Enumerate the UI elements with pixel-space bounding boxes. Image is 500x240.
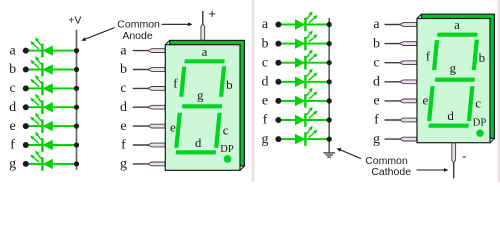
- svg-text:d: d: [9, 100, 16, 115]
- svg-text:e: e: [262, 94, 268, 109]
- pin b of display U2: [385, 42, 417, 46]
- segment a (U2): [437, 33, 477, 37]
- junction dot c on cathode rail: [327, 60, 332, 65]
- LED b (common anode): [30, 56, 53, 76]
- LED a (common cathode): [295, 11, 318, 31]
- svg-text:d: d: [262, 75, 269, 90]
- junction dot g on cathode rail: [327, 137, 332, 142]
- pin g of display U2: [385, 137, 417, 141]
- wire segment c (left LED row): [26, 87, 77, 89]
- pin a of display U1: [133, 49, 165, 53]
- junction dot b on cathode rail: [327, 41, 332, 46]
- svg-text:b: b: [262, 36, 269, 51]
- svg-text:g: g: [9, 157, 16, 172]
- pin g of display U1: [133, 162, 165, 166]
- node c input dot (right): [275, 60, 281, 66]
- seven segment display U2 body (3D back/side): [417, 14, 494, 143]
- svg-text:d: d: [447, 108, 454, 123]
- node c input dot (left): [23, 85, 29, 91]
- svg-text:Cathode: Cathode: [371, 166, 411, 178]
- common cathode rail: [328, 18, 330, 153]
- junction dot a on cathode rail: [327, 22, 332, 27]
- junction dot e on +V rail: [74, 124, 79, 129]
- DP dot (U2): [476, 129, 484, 137]
- svg-text:g: g: [262, 132, 269, 147]
- svg-text:Anode: Anode: [122, 30, 153, 42]
- svg-text:e: e: [423, 93, 429, 108]
- wire segment e (right LED row): [278, 100, 329, 102]
- pin f of display U2: [385, 118, 417, 122]
- node a input dot (left): [23, 48, 29, 54]
- svg-text:g: g: [373, 132, 380, 147]
- svg-text:Common: Common: [365, 155, 408, 167]
- segment d (U1): [176, 150, 216, 154]
- svg-text:e: e: [120, 119, 126, 134]
- svg-text:e: e: [373, 94, 379, 109]
- wire segment g (right LED row): [278, 138, 329, 140]
- wire segment d (right LED row): [278, 81, 329, 83]
- svg-text:a: a: [454, 17, 460, 32]
- +V common anode rail: [76, 30, 78, 170]
- svg-text:f: f: [426, 48, 431, 63]
- cathode pin (-) of U2: [452, 143, 456, 178]
- svg-text:f: f: [173, 75, 178, 90]
- junction dot a on +V rail: [74, 48, 79, 53]
- LED d (common cathode): [295, 68, 318, 88]
- svg-text:a: a: [120, 43, 127, 58]
- svg-text:d: d: [373, 75, 380, 90]
- LED e (common anode): [30, 113, 53, 133]
- svg-text:c: c: [120, 81, 126, 96]
- svg-text:+: +: [208, 6, 216, 21]
- segment e (U2): [427, 86, 435, 121]
- junction dot g on +V rail: [74, 161, 79, 166]
- right edge border: [498, 0, 500, 182]
- pin c of display U2: [385, 61, 417, 65]
- svg-text:a: a: [262, 17, 269, 32]
- svg-text:g: g: [197, 87, 204, 102]
- svg-text:c: c: [9, 81, 15, 96]
- svg-text:b: b: [9, 62, 16, 77]
- svg-text:f: f: [263, 113, 268, 128]
- node g input dot (left): [23, 161, 29, 167]
- wire segment b (left LED row): [26, 69, 77, 71]
- wire segment c (right LED row): [278, 62, 329, 64]
- pin c of display U1: [133, 87, 165, 91]
- divider between halves: [252, 0, 255, 182]
- junction dot f on +V rail: [74, 142, 79, 147]
- ground symbol (common cathode): [323, 153, 335, 157]
- segment f (U1): [179, 67, 186, 97]
- svg-text:d: d: [120, 100, 127, 115]
- pin f of display U1: [133, 143, 165, 147]
- anode pin (+) of U1: [201, 11, 205, 40]
- wire segment b (right LED row): [278, 43, 329, 45]
- svg-text:f: f: [121, 138, 126, 153]
- segment a (U1): [184, 59, 224, 63]
- wire segment f (left LED row): [26, 144, 77, 146]
- svg-text:b: b: [226, 77, 233, 92]
- node d input dot (left): [23, 104, 29, 110]
- svg-text:f: f: [10, 138, 15, 153]
- DP dot (U1): [224, 155, 232, 163]
- wire segment d (left LED row): [26, 106, 77, 108]
- segment g (U2): [435, 78, 475, 82]
- seven segment display U1 body (3D back/side): [165, 40, 244, 170]
- svg-text:c: c: [262, 55, 268, 70]
- seven segment display U1 face: [165, 45, 240, 171]
- pin d of display U1: [133, 105, 165, 109]
- pin b of display U1: [133, 68, 165, 72]
- svg-text:DP: DP: [473, 117, 487, 128]
- svg-text:e: e: [170, 120, 176, 135]
- LED b (common cathode): [295, 30, 318, 50]
- junction dot d on +V rail: [74, 105, 79, 110]
- arrow from Common Cathode label to display cathode pin: [417, 169, 445, 171]
- node f input dot (right): [275, 117, 281, 123]
- LED c (common anode): [30, 75, 53, 95]
- svg-text:b: b: [120, 62, 127, 77]
- pin a of display U2: [385, 23, 417, 27]
- LED e (common cathode): [295, 88, 318, 108]
- segment b (U2): [472, 40, 479, 71]
- LED f (common cathode): [295, 107, 318, 127]
- segment g (U1): [182, 104, 222, 108]
- segment d (U2): [428, 124, 468, 128]
- node g input dot (right): [275, 136, 281, 142]
- segment e (U1): [174, 113, 182, 148]
- segment b (U1): [219, 66, 226, 97]
- pin e of display U1: [133, 124, 165, 128]
- svg-text:e: e: [9, 119, 15, 134]
- LED a (common anode): [30, 37, 53, 57]
- svg-text:b: b: [373, 36, 380, 51]
- LED c (common cathode): [295, 49, 318, 69]
- wire segment e (left LED row): [26, 125, 77, 127]
- svg-text:c: c: [475, 95, 481, 110]
- segment c (U2): [467, 86, 475, 121]
- node f input dot (left): [23, 142, 29, 148]
- svg-text:a: a: [373, 17, 380, 32]
- LED g (common cathode): [295, 126, 318, 146]
- node d input dot (right): [275, 79, 281, 85]
- arrow from Common Anode label to display anode pin: [162, 23, 189, 25]
- svg-text:a: a: [9, 43, 16, 58]
- node b input dot (right): [275, 41, 281, 47]
- svg-text:+V: +V: [68, 15, 81, 27]
- junction dot c on +V rail: [74, 86, 79, 91]
- seven segment display U2 face: [417, 19, 490, 143]
- svg-text:f: f: [374, 113, 379, 128]
- svg-text:a: a: [202, 44, 208, 59]
- svg-text:g: g: [450, 60, 457, 75]
- svg-text:d: d: [195, 135, 202, 150]
- node e input dot (right): [275, 98, 281, 104]
- junction dot b on +V rail: [74, 67, 79, 72]
- wire segment f (right LED row): [278, 119, 329, 121]
- LED f (common anode): [30, 132, 53, 152]
- svg-text:DP: DP: [220, 144, 234, 155]
- arrow from Common Anode label to +V rail: [85, 28, 115, 40]
- svg-text:b: b: [479, 50, 486, 65]
- svg-text:Common: Common: [117, 19, 160, 31]
- svg-text:c: c: [373, 55, 379, 70]
- wire segment a (right LED row): [278, 24, 329, 26]
- junction dot e on cathode rail: [327, 98, 332, 103]
- wire segment g (left LED row): [26, 163, 77, 165]
- wire segment a (left LED row): [26, 50, 77, 52]
- arrow from Common Cathode label to ground: [340, 150, 361, 159]
- node a input dot (right): [275, 22, 281, 28]
- junction dot d on cathode rail: [327, 79, 332, 84]
- svg-text:g: g: [120, 157, 127, 172]
- svg-text:-: -: [462, 148, 466, 163]
- pin d of display U2: [385, 80, 417, 84]
- segment f (U2): [432, 40, 439, 70]
- svg-text:c: c: [223, 122, 229, 137]
- LED d (common anode): [30, 94, 53, 114]
- node e input dot (left): [23, 123, 29, 129]
- pin e of display U2: [385, 99, 417, 103]
- node b input dot (left): [23, 67, 29, 73]
- segment c (U1): [214, 113, 222, 148]
- junction dot f on cathode rail: [327, 117, 332, 122]
- LED g (common anode): [30, 151, 53, 171]
